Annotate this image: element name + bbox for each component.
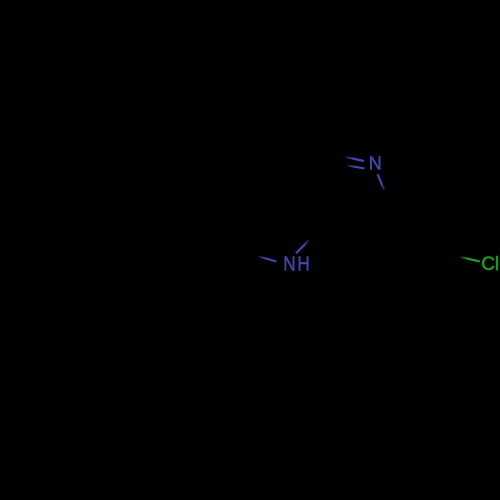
svg-text:NH: NH bbox=[283, 253, 311, 276]
node Cl chlorine label bbox=[481, 254, 499, 275]
node NH amine label bbox=[283, 253, 311, 276]
bond C2=N1 double bond lower line (blue half) bbox=[347, 165, 365, 168]
bond C2=N1 double bond upper line (blue half) bbox=[346, 157, 365, 161]
node N1 ring nitrogen label bbox=[369, 152, 382, 173]
bond NH-C4 (blue half) bbox=[296, 240, 309, 253]
bond NH-C1 methyl (blue half) bbox=[259, 257, 277, 262]
bond N1-C8a (blue half) bbox=[378, 174, 385, 190]
svg-text:Cl: Cl bbox=[481, 254, 499, 275]
svg-text:N: N bbox=[369, 152, 382, 173]
bond C7-Cl (green half) bbox=[461, 257, 480, 262]
